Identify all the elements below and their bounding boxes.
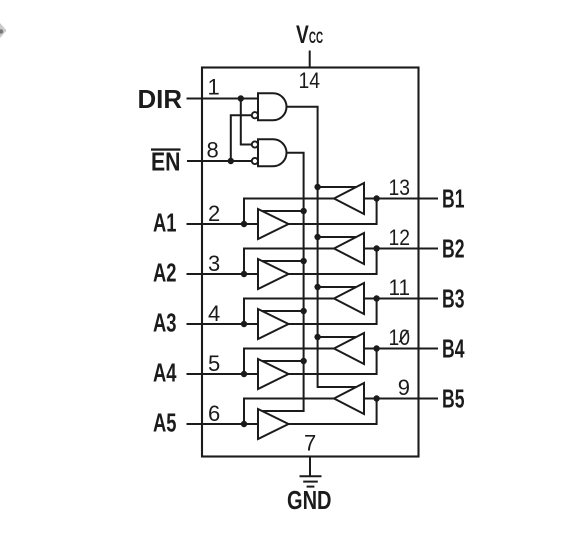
buffer A2 (A to B, tri-state) (258, 259, 289, 289)
node A5 junction (241, 421, 247, 427)
wire enable to buffer B1 (318, 186, 357, 188)
wire enable to buffer A1 (262, 210, 304, 212)
bubble G2 upper input (252, 141, 258, 147)
pin 12 label (389, 225, 411, 250)
svg-text:DIR: DIR (138, 84, 183, 114)
svg-text:2: 2 (208, 201, 220, 226)
pin 14 label (299, 68, 321, 93)
bubble G1 lower input (252, 112, 258, 118)
wire DIR input (187, 98, 259, 100)
wire B4 pin line (364, 348, 438, 350)
wire buffer A2 output to B2 node (289, 249, 377, 275)
wire A3 input (187, 323, 259, 325)
svg-text:1: 1 (208, 75, 220, 100)
buffer B4 (B to A, tri-state) (334, 333, 364, 364)
svg-text:11: 11 (389, 275, 411, 300)
B3 output label (442, 284, 465, 314)
wire B3 pin line (364, 298, 438, 300)
svg-text:A3: A3 (153, 308, 177, 338)
pin 4 label (208, 301, 220, 326)
svg-text:6: 6 (208, 401, 220, 426)
wire EN input (187, 160, 252, 162)
buffer B1 (B to A, tri-state) (334, 183, 364, 214)
bubble G2 lower input (252, 158, 258, 164)
wire B1 pin line (364, 198, 438, 200)
svg-text:GND: GND (287, 485, 332, 515)
B2 output label (442, 234, 465, 264)
wire buffer B3 output to A3 node (244, 299, 334, 325)
svg-text:9: 9 (398, 375, 410, 400)
VCC power symbol (296, 21, 323, 68)
buffer A1 (A to B, tri-state) (258, 209, 289, 239)
node A4 enable tap (300, 358, 306, 364)
wire buffer A1 output to B1 node (289, 199, 377, 225)
svg-text:EN: EN (151, 147, 181, 177)
svg-text:A1: A1 (153, 208, 177, 238)
svg-text:12: 12 (389, 225, 411, 250)
A2 input label (153, 258, 177, 288)
pin 5 label (208, 351, 220, 376)
pin 1 label (208, 75, 220, 100)
svg-text:B2: B2 (442, 234, 465, 264)
node B2 junction (373, 245, 379, 251)
node B1 junction (373, 195, 379, 201)
node A1 junction (241, 221, 247, 227)
B4 output label (442, 334, 465, 364)
wire DIR to gate G2 upper input (241, 99, 252, 145)
pin 9 label (398, 375, 410, 400)
IC outline U1 (202, 68, 419, 457)
svg-text:10: 10 (389, 325, 411, 350)
svg-text:A4: A4 (153, 358, 177, 388)
svg-text:5: 5 (208, 351, 220, 376)
AND gate G1 (DIR, /EN) (258, 93, 287, 120)
wire B2 pin line (364, 248, 438, 250)
wire buffer B2 output to A2 node (244, 249, 334, 275)
buffer B5 (B to A, tri-state) (334, 383, 364, 414)
buffer B2 (B to A, tri-state) (334, 233, 364, 264)
wire enable to buffer A4 (262, 360, 304, 362)
A5 input label (153, 408, 177, 438)
wire B5 pin line (364, 398, 438, 400)
A4 input label (153, 358, 177, 388)
B1 output label (442, 184, 465, 214)
node EN junction (228, 158, 234, 164)
svg-text:13: 13 (389, 175, 411, 200)
svg-text:3: 3 (208, 251, 220, 276)
node A2 enable tap (300, 258, 306, 264)
buffer A5 (A to B, tri-state) (258, 409, 289, 439)
wire A1 input (187, 223, 259, 225)
node B3 junction (373, 295, 379, 301)
node B5 junction (373, 395, 379, 401)
wire A5 input (187, 423, 259, 425)
node DIR junction (238, 95, 244, 101)
wire enable to buffer B4 (318, 336, 357, 338)
stray edge artifact (0, 23, 6, 38)
node A2 junction (241, 271, 247, 277)
wire enable to buffer B3 (318, 286, 357, 288)
A1 input label (153, 208, 177, 238)
buffer B3 (B to A, tri-state) (334, 283, 364, 314)
svg-text:A5: A5 (153, 408, 177, 438)
AND gate G2 (/DIR, /EN) (258, 139, 287, 166)
buffer A3 (A to B, tri-state) (258, 309, 289, 339)
pin 13 label (389, 175, 411, 200)
wire enable to buffer B2 (318, 236, 357, 238)
wire buffer B1 output to A1 node (244, 199, 334, 225)
node B1 enable tap (314, 184, 320, 190)
svg-text:B5: B5 (442, 384, 465, 414)
svg-text:8: 8 (207, 138, 219, 163)
pin 6 label (208, 401, 220, 426)
pin 10 label (slashed zero) (389, 325, 411, 350)
B5 output label (442, 384, 465, 414)
svg-text:B1: B1 (442, 184, 465, 214)
pin 11 label (389, 275, 411, 300)
pin 8 label (207, 138, 219, 163)
svg-text:14: 14 (299, 68, 321, 93)
wire A4 input (187, 373, 259, 375)
buffer A4 (A to B, tri-state) (258, 359, 289, 389)
DIR input label (138, 84, 183, 114)
pin 2 label (208, 201, 220, 226)
node B4 enable tap (314, 334, 320, 340)
wire G2 output to A-buffer enable bus (262, 153, 304, 411)
svg-text:7: 7 (304, 431, 316, 456)
svg-text:B4: B4 (442, 334, 465, 364)
wire A2 input (187, 273, 259, 275)
wire buffer A3 output to B3 node (289, 299, 377, 325)
EN input label (active low, overbar) (151, 147, 181, 177)
svg-text:A2: A2 (153, 258, 177, 288)
wire enable to buffer A3 (262, 310, 304, 312)
wire enable to buffer A2 (262, 260, 304, 262)
node B3 enable tap (314, 284, 320, 290)
wire buffer A5 output to B5 node (289, 399, 377, 425)
wire EN to gate G1 lower input (231, 115, 252, 161)
node A3 enable tap (300, 308, 306, 314)
wire G1 output to B-buffer enable bus (287, 107, 357, 387)
GND ground symbol (287, 457, 332, 516)
node A3 junction (241, 321, 247, 327)
pin 3 label (208, 251, 220, 276)
A3 input label (153, 308, 177, 338)
svg-text:B3: B3 (442, 284, 465, 314)
svg-text:CC: CC (309, 29, 323, 47)
node A1 enable tap (300, 208, 306, 214)
svg-text:4: 4 (208, 301, 220, 326)
svg-text:V: V (296, 21, 309, 49)
wire buffer A4 output to B4 node (289, 349, 377, 375)
pin 7 label (304, 431, 316, 456)
node A4 junction (241, 371, 247, 377)
node B2 enable tap (314, 234, 320, 240)
node B4 junction (373, 345, 379, 351)
wire buffer B4 output to A4 node (244, 349, 334, 375)
wire buffer B5 output to A5 node (244, 399, 334, 425)
